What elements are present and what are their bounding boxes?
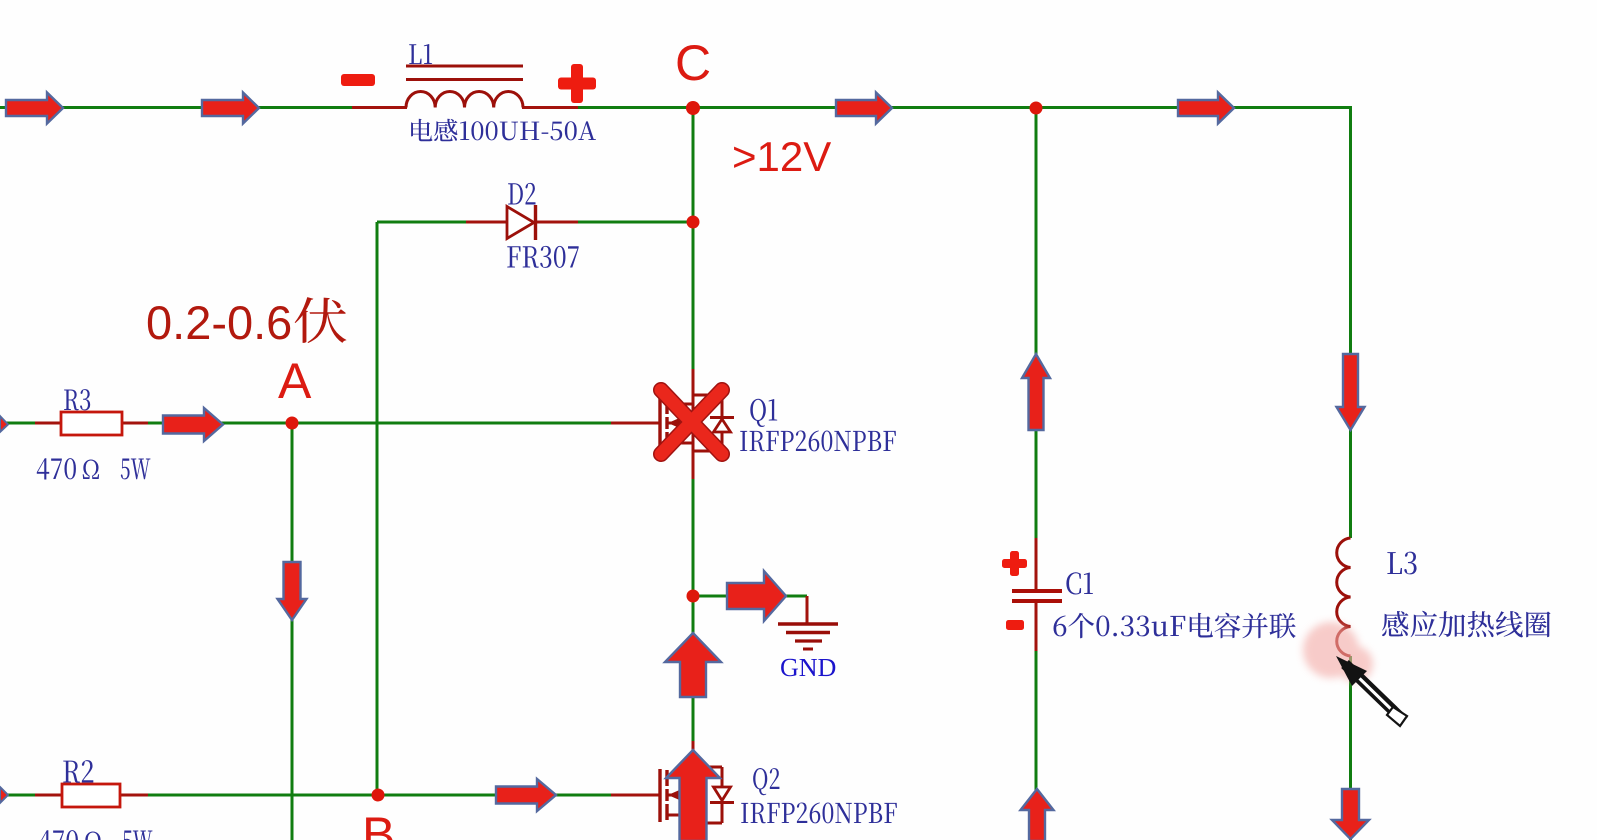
mouse cursor <box>1336 656 1407 726</box>
wire: node C vertical through Q1 to Q2 <box>692 108 695 840</box>
current arrow down on node A branch <box>278 562 307 620</box>
current arrow into GND <box>727 571 786 621</box>
label Q1 <box>750 399 777 427</box>
minus annotation at L1 left <box>341 74 375 86</box>
wire: top supply rail <box>0 106 1352 109</box>
node A junction dot <box>286 417 299 430</box>
minus annotation at C1 <box>1006 620 1024 630</box>
label R3 <box>64 389 90 410</box>
junction dot at GND tap <box>687 590 700 603</box>
value IRFP260NPBF (Q2) <box>741 803 897 824</box>
current arrow top-right 1 <box>836 93 892 124</box>
junction dot D2 cathode <box>687 216 700 229</box>
value 电感100UH-50A <box>411 119 596 142</box>
current arrow up at C1 bottom <box>1021 789 1054 840</box>
transistor Q2 <box>611 741 734 823</box>
label D2 <box>508 183 535 205</box>
wire: C1 branch vertical <box>1035 108 1038 840</box>
value 470ohm 5W (R2) <box>39 830 153 840</box>
node B junction dot <box>372 789 385 802</box>
current arrow down on L3 branch <box>1337 354 1365 430</box>
plus annotation at L1 right <box>558 64 596 103</box>
label L1 <box>409 44 432 64</box>
annotation 0.2-0.6V <box>146 296 346 349</box>
node C junction dot <box>686 101 700 115</box>
value 6x0.33uF capacitors note <box>1054 613 1296 639</box>
label L3 <box>1387 552 1416 575</box>
svg-text:0.2-0.6: 0.2-0.6 <box>146 296 292 349</box>
transistor Q1 <box>611 369 734 479</box>
svg-text:>12V: >12V <box>732 133 831 180</box>
current arrow top-left 2 <box>202 93 259 124</box>
current arrow up on C1 branch <box>1022 354 1050 430</box>
svg-text:B: B <box>362 807 395 840</box>
clipped arrow at left edge (R2 wire) <box>0 787 8 803</box>
resistor R3 <box>35 412 148 435</box>
label R2 <box>63 760 93 783</box>
current arrow top-right 2 <box>1178 93 1234 124</box>
value 470ohm 5W (R3) <box>37 458 151 479</box>
wire: node A vertical <box>291 423 294 840</box>
inductor L1 <box>352 66 578 108</box>
current arrow down at L3 bottom <box>1332 789 1369 839</box>
junction dot C1 branch <box>1030 102 1043 115</box>
value IRFP260NPBF (Q1) <box>740 431 896 452</box>
ground symbol <box>778 596 838 649</box>
label Q2 <box>753 768 779 795</box>
wire: D2 horizontal branch <box>377 221 693 224</box>
diode D2 <box>466 205 578 240</box>
resistor R2 <box>35 784 148 807</box>
clipped arrow at left edge (R3 wire) <box>0 416 8 432</box>
wire: Q1 gate horizontal (node A) <box>0 422 612 425</box>
svg-text:C: C <box>675 35 711 91</box>
pink highlight blob <box>1303 622 1373 682</box>
value 感应加热线圈 note <box>1382 611 1551 638</box>
wire: Q1 source to ground <box>693 595 807 598</box>
wire: left vertical from D2 anode to node B <box>376 222 379 795</box>
label C1 <box>1066 572 1093 594</box>
current arrow up from Q2 to GND tap <box>665 633 721 697</box>
red X mark over Q1 <box>661 390 722 454</box>
current arrow after R3 <box>163 408 223 441</box>
plus annotation at C1 <box>1002 551 1027 576</box>
current arrow after R2 <box>496 779 556 811</box>
inductor L3 (work coil) <box>1337 538 1351 656</box>
value FR307 <box>507 246 578 268</box>
big current arrow up through Q2 <box>666 750 720 840</box>
wire: Q2 gate horizontal (node B) <box>0 794 612 797</box>
label GND <box>781 659 835 677</box>
wire: right branch down to L3 <box>1349 108 1352 840</box>
svg-text:A: A <box>278 353 312 409</box>
capacitor C1 <box>1012 538 1062 651</box>
current arrow top-left 1 <box>6 93 63 124</box>
